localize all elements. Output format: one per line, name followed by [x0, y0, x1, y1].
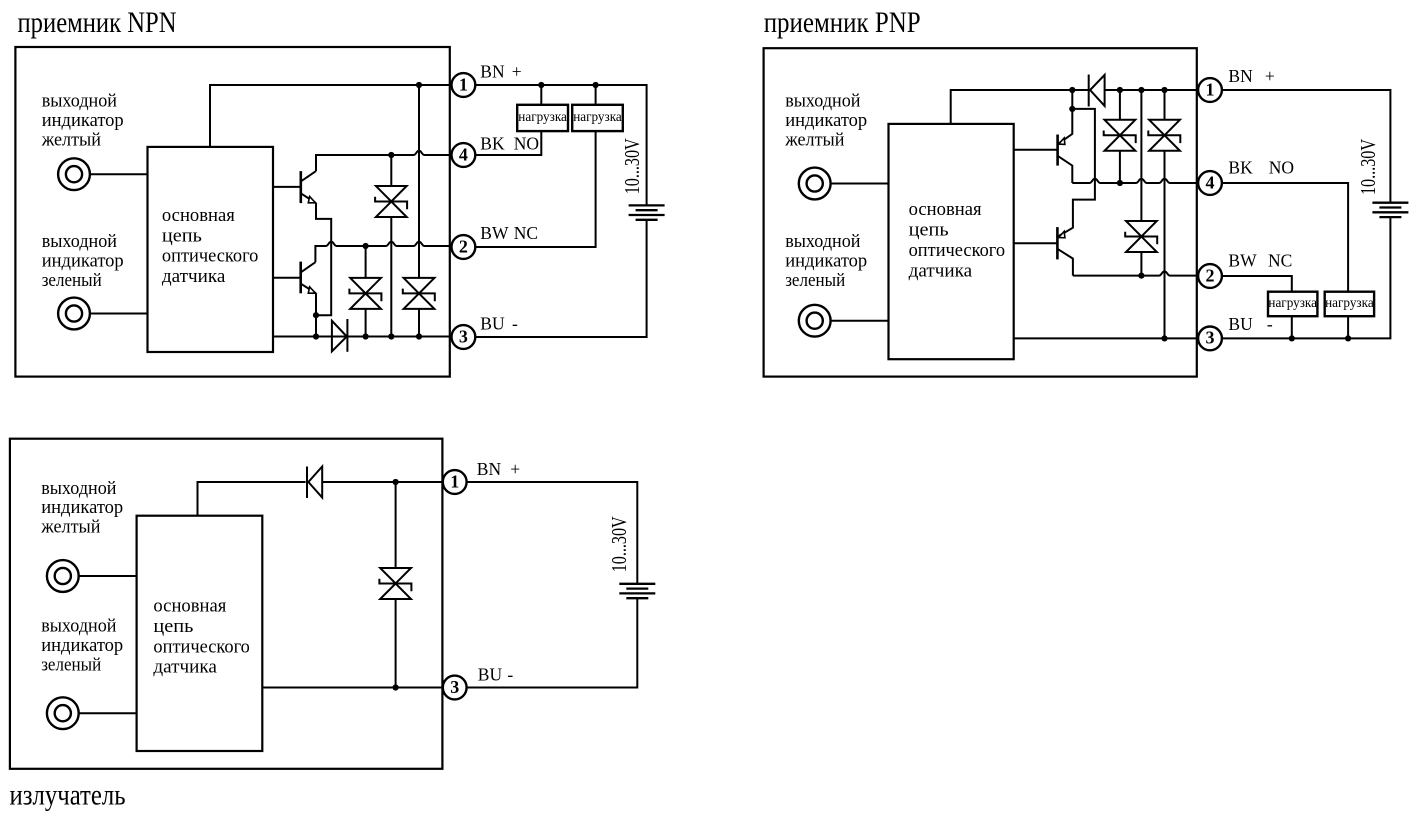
wire: Q2 collector to BW NC line with hops (NPN)	[315, 242, 451, 262]
svg-text:BW: BW	[1228, 250, 1257, 270]
diode D2 reverse protection (PNP)	[1089, 75, 1105, 107]
svg-text:+: +	[1265, 66, 1275, 86]
TVS diode Z3 across supply (NPN)	[403, 85, 435, 337]
svg-text:2: 2	[459, 236, 468, 256]
node: minus rail junction with TVS (emitter)	[393, 684, 399, 690]
svg-text:основная: основная	[153, 596, 226, 617]
svg-text:индикатор: индикатор	[41, 497, 123, 518]
svg-text:индикатор: индикатор	[42, 250, 124, 271]
svg-text:+: +	[512, 61, 522, 81]
label: BU - (PNP)	[1228, 314, 1273, 334]
load box 1 нагрузка (PNP NC load)	[1268, 292, 1317, 317]
wire: Q3 collector to pin 4 with hops (PNP)	[1072, 179, 1198, 183]
svg-text:NC: NC	[1268, 250, 1292, 270]
pin 1 (emitter)	[443, 470, 467, 494]
battery 10...30V (PNP)	[1372, 203, 1408, 217]
svg-text:зеленый: зеленый	[785, 270, 845, 291]
wire: box top to BN + line (NPN net 1)	[210, 85, 451, 147]
label: выходной индикатор желтый (PNP)	[784, 91, 867, 151]
load box 2 нагрузка (PNP NO load)	[1325, 292, 1374, 317]
transistor Q2 (NPN, NC output)	[301, 262, 316, 294]
svg-text:10...30V: 10...30V	[620, 138, 644, 194]
svg-text:датчика: датчика	[153, 657, 217, 678]
TVS diode Za between plus and pin4 (PNP)	[1104, 90, 1136, 183]
wire: yellow LED to main circuit (NPN)	[90, 173, 148, 175]
label: BN + (PNP)	[1228, 66, 1275, 86]
wire: load2 to plus line (NPN)	[595, 85, 597, 105]
svg-text:излучатель: излучатель	[10, 778, 126, 811]
wire: box top to plus line (emitter net 1)	[198, 482, 306, 516]
main circuit box (emitter): основная цепь оптического датчика	[137, 516, 263, 751]
transistor Q4 (PNP, NC output)	[1057, 227, 1073, 276]
svg-text:основная: основная	[909, 199, 982, 220]
svg-text:приемник NPN: приемник NPN	[18, 6, 177, 39]
svg-text:BU: BU	[478, 664, 503, 684]
wire: pin1 to battery plus (emitter)	[467, 482, 638, 584]
node: load junctions on plus line (NPN)	[538, 82, 544, 88]
diode D1 reverse protection (NPN)	[332, 319, 348, 352]
label: BK NO (NPN)	[480, 133, 539, 153]
pin 3 (PNP)	[1198, 327, 1222, 351]
svg-text:датчика: датчика	[909, 260, 973, 281]
TVS diode Z2 between pin2 and minus (NPN)	[349, 246, 381, 337]
svg-text:выходной: выходной	[785, 91, 860, 112]
svg-text:желтый: желтый	[41, 129, 101, 150]
svg-text:индикатор: индикатор	[785, 250, 867, 271]
wire: Q1 collector to pin 4 line with hop (NPN)	[316, 151, 451, 171]
svg-text:NC: NC	[514, 223, 538, 243]
svg-text:4: 4	[459, 144, 468, 164]
wire: Q2 base (NPN)	[273, 277, 301, 279]
indicator LED yellow (PNP)	[799, 168, 831, 200]
label: выходной индикатор зеленый (NPN)	[42, 231, 124, 291]
sensor housing box (emitter)	[10, 439, 443, 769]
svg-text:выходной: выходной	[42, 91, 117, 112]
svg-text:BU: BU	[480, 313, 505, 333]
wire: green LED to main circuit (emitter)	[79, 712, 137, 714]
wire: Q1 base (NPN)	[273, 186, 301, 188]
indicator LED yellow (NPN)	[58, 158, 90, 190]
svg-text:желтый: желтый	[40, 516, 100, 537]
svg-text:1: 1	[459, 74, 468, 94]
wire: pin 2 to load 1 (PNP)	[1222, 276, 1292, 292]
svg-text:10...30V: 10...30V	[1356, 139, 1380, 195]
svg-text:желтый: желтый	[784, 129, 844, 150]
svg-text:NO: NO	[514, 133, 539, 153]
indicator LED yellow (emitter)	[47, 560, 79, 592]
node: 4-line junction with TVS Z1 (NPN)	[388, 152, 394, 158]
node: net1 junction at TVS Z3 (NPN)	[416, 82, 422, 88]
wire: pin1 to battery plus (PNP)	[1222, 90, 1391, 203]
label: BK NO (PNP)	[1228, 158, 1294, 178]
svg-text:BW: BW	[480, 223, 509, 243]
node: 2-line junction with TVS Z2 (NPN)	[363, 243, 369, 249]
wire: minus rail (emitter)	[262, 687, 443, 689]
svg-text:нагрузка: нагрузка	[1325, 295, 1374, 310]
wire: minus rail to pin 3 (PNP)	[1014, 337, 1198, 339]
svg-text:приемник PNP: приемник PNP	[764, 6, 921, 39]
node: plus line junctions (PNP)	[1069, 87, 1075, 93]
svg-text:выходной: выходной	[41, 478, 116, 499]
svg-text:выходной: выходной	[41, 615, 116, 636]
label: BW NC (NPN)	[480, 223, 538, 243]
wire: diode to pin 1 (PNP)	[1105, 89, 1199, 91]
svg-text:выходной: выходной	[42, 231, 117, 252]
pin 4 (NPN)	[452, 143, 476, 167]
indicator LED green (NPN)	[58, 298, 90, 330]
svg-text:BN: BN	[1228, 66, 1253, 86]
wire: box top to plus line (PNP net 1)	[951, 90, 1089, 124]
wire: pin 4 to load 2 (PNP)	[1222, 183, 1348, 292]
wire: battery minus to pin 3 (NPN)	[475, 220, 646, 337]
wire: yellow LED to main circuit (PNP)	[831, 183, 889, 185]
wire: diode to pin 1 (emitter)	[322, 481, 443, 483]
node: 2-line junction with TVS Zc (PNP)	[1138, 273, 1144, 279]
TVS diode Z1 between pin4 and minus (NPN)	[375, 155, 407, 337]
node: plus line junction with TVS (emitter)	[393, 479, 399, 485]
label: BW NC (PNP)	[1228, 250, 1292, 270]
wire: Q3 base (PNP)	[1014, 149, 1058, 151]
svg-text:3: 3	[459, 326, 468, 346]
pin 1 (PNP)	[1198, 78, 1222, 102]
svg-text:индикатор: индикатор	[42, 110, 124, 131]
svg-text:2: 2	[1206, 265, 1215, 285]
label: выходной индикатор желтый (NPN)	[41, 91, 124, 151]
wire: Q1 emitter down to emitter junction (NPN)	[316, 203, 331, 315]
svg-text:BK: BK	[480, 133, 505, 153]
wire: pin1 to supply plus (NPN)	[475, 85, 646, 205]
svg-text:нагрузка: нагрузка	[573, 109, 622, 124]
wire: load2 to minus (PNP)	[1347, 316, 1349, 338]
svg-text:индикатор: индикатор	[41, 635, 123, 656]
svg-text:индикатор: индикатор	[785, 110, 867, 131]
svg-text:цепь: цепь	[162, 225, 202, 246]
svg-text:-: -	[512, 313, 518, 333]
wire: battery minus to pin 3 (emitter)	[467, 598, 638, 687]
TVS diode Zb across supply (PNP)	[1148, 90, 1180, 338]
wire: load1 to minus (PNP)	[1291, 316, 1293, 338]
svg-text:BN: BN	[477, 459, 502, 479]
svg-text:оптического: оптического	[153, 636, 250, 657]
svg-text:BN: BN	[480, 61, 505, 81]
svg-text:3: 3	[450, 677, 459, 697]
node: emitter junction (NPN)	[313, 312, 319, 318]
pin 3 (emitter)	[443, 676, 467, 700]
load box 1 нагрузка (NPN NO load)	[517, 105, 568, 131]
svg-text:зеленый: зеленый	[41, 655, 101, 676]
pin 1 (NPN)	[452, 73, 476, 97]
wire: load2 to pin 2 (NPN)	[475, 131, 596, 247]
svg-text:1: 1	[1206, 79, 1215, 99]
svg-text:нагрузка: нагрузка	[518, 109, 567, 124]
wire: Q2 emitter to minus rail (NPN)	[315, 293, 317, 336]
wire: green LED to main circuit (NPN)	[90, 313, 148, 315]
svg-text:3: 3	[1206, 328, 1215, 348]
sensor housing box (NPN receiver)	[15, 47, 449, 377]
svg-text:BU: BU	[1228, 314, 1253, 334]
battery 10...30V (NPN)	[629, 205, 665, 219]
svg-text:4: 4	[1206, 172, 1215, 192]
indicator LED green (PNP)	[799, 305, 831, 337]
pin 4 (PNP)	[1198, 171, 1222, 195]
sensor housing box (PNP receiver)	[764, 48, 1197, 376]
label: выходной индикатор зеленый (emitter)	[41, 615, 123, 675]
wire: battery minus to pin 3 (PNP)	[1222, 217, 1391, 338]
wire: load1 to plus line (NPN)	[540, 85, 542, 105]
svg-text:BK: BK	[1228, 158, 1253, 178]
svg-text:10...30V: 10...30V	[607, 516, 631, 572]
svg-text:1: 1	[450, 471, 459, 491]
indicator LED green (emitter)	[47, 697, 79, 729]
TVS diode Zc between plus and pin2 (PNP)	[1125, 90, 1157, 276]
node: minus rail junction with Zb (PNP)	[1161, 335, 1167, 341]
diode D3 reverse protection (emitter)	[307, 467, 322, 499]
wire: green LED to main circuit (PNP)	[831, 320, 889, 322]
wire: Q4 collector to pin 2 with hop (PNP)	[1073, 271, 1198, 275]
svg-text:основная: основная	[162, 205, 235, 226]
pin 2 (PNP)	[1198, 264, 1222, 288]
svg-text:NO: NO	[1269, 158, 1294, 178]
label: выходной индикатор желтый (emitter)	[40, 478, 123, 538]
svg-text:оптического: оптического	[162, 246, 259, 267]
wire: emitter supply rail (PNP)	[1059, 90, 1095, 236]
node: 4-line junction with TVS Za (PNP)	[1117, 180, 1123, 186]
pin 3 (NPN)	[452, 325, 476, 349]
wire: yellow LED to main circuit (emitter)	[79, 575, 137, 577]
node: load junctions on minus line (PNP)	[1289, 335, 1295, 341]
transistor Q1 (NPN, NO output)	[301, 171, 316, 203]
pin 2 (NPN)	[452, 235, 476, 259]
node: emitter rail junction (PNP)	[1069, 106, 1075, 112]
svg-text:цепь: цепь	[153, 616, 193, 637]
svg-text:-: -	[507, 664, 513, 684]
battery 10...30V (emitter)	[619, 584, 655, 598]
label: BU - (emitter)	[478, 664, 514, 684]
main circuit box (NPN): основная цепь оптического датчика	[148, 147, 274, 352]
svg-text:датчика: датчика	[162, 266, 226, 287]
svg-text:нагрузка: нагрузка	[1268, 295, 1317, 310]
svg-text:цепь: цепь	[909, 220, 949, 241]
wire: load1 to pin 4 (NPN)	[475, 131, 541, 155]
svg-text:+: +	[510, 459, 520, 479]
svg-text:выходной: выходной	[785, 231, 860, 252]
wire: Q4 base (PNP)	[1014, 242, 1058, 244]
label: BN + (NPN)	[480, 61, 522, 81]
label: BU - (NPN)	[480, 313, 518, 333]
TVS diode Z4 across supply (emitter)	[379, 482, 411, 688]
label: выходной индикатор зеленый (PNP)	[785, 231, 867, 291]
svg-text:оптического: оптического	[909, 240, 1006, 261]
transistor Q3 (PNP, NO output)	[1058, 109, 1073, 183]
node: minus rail junctions (NPN)	[313, 333, 319, 339]
svg-text:зеленый: зеленый	[42, 270, 102, 291]
label: BN + (emitter)	[477, 459, 521, 479]
load box 2 нагрузка (NPN NC load)	[572, 105, 623, 131]
wire: minus rail BU line (NPN net 3)	[273, 336, 451, 338]
main circuit box (PNP): основная цепь оптического датчика	[889, 124, 1014, 359]
